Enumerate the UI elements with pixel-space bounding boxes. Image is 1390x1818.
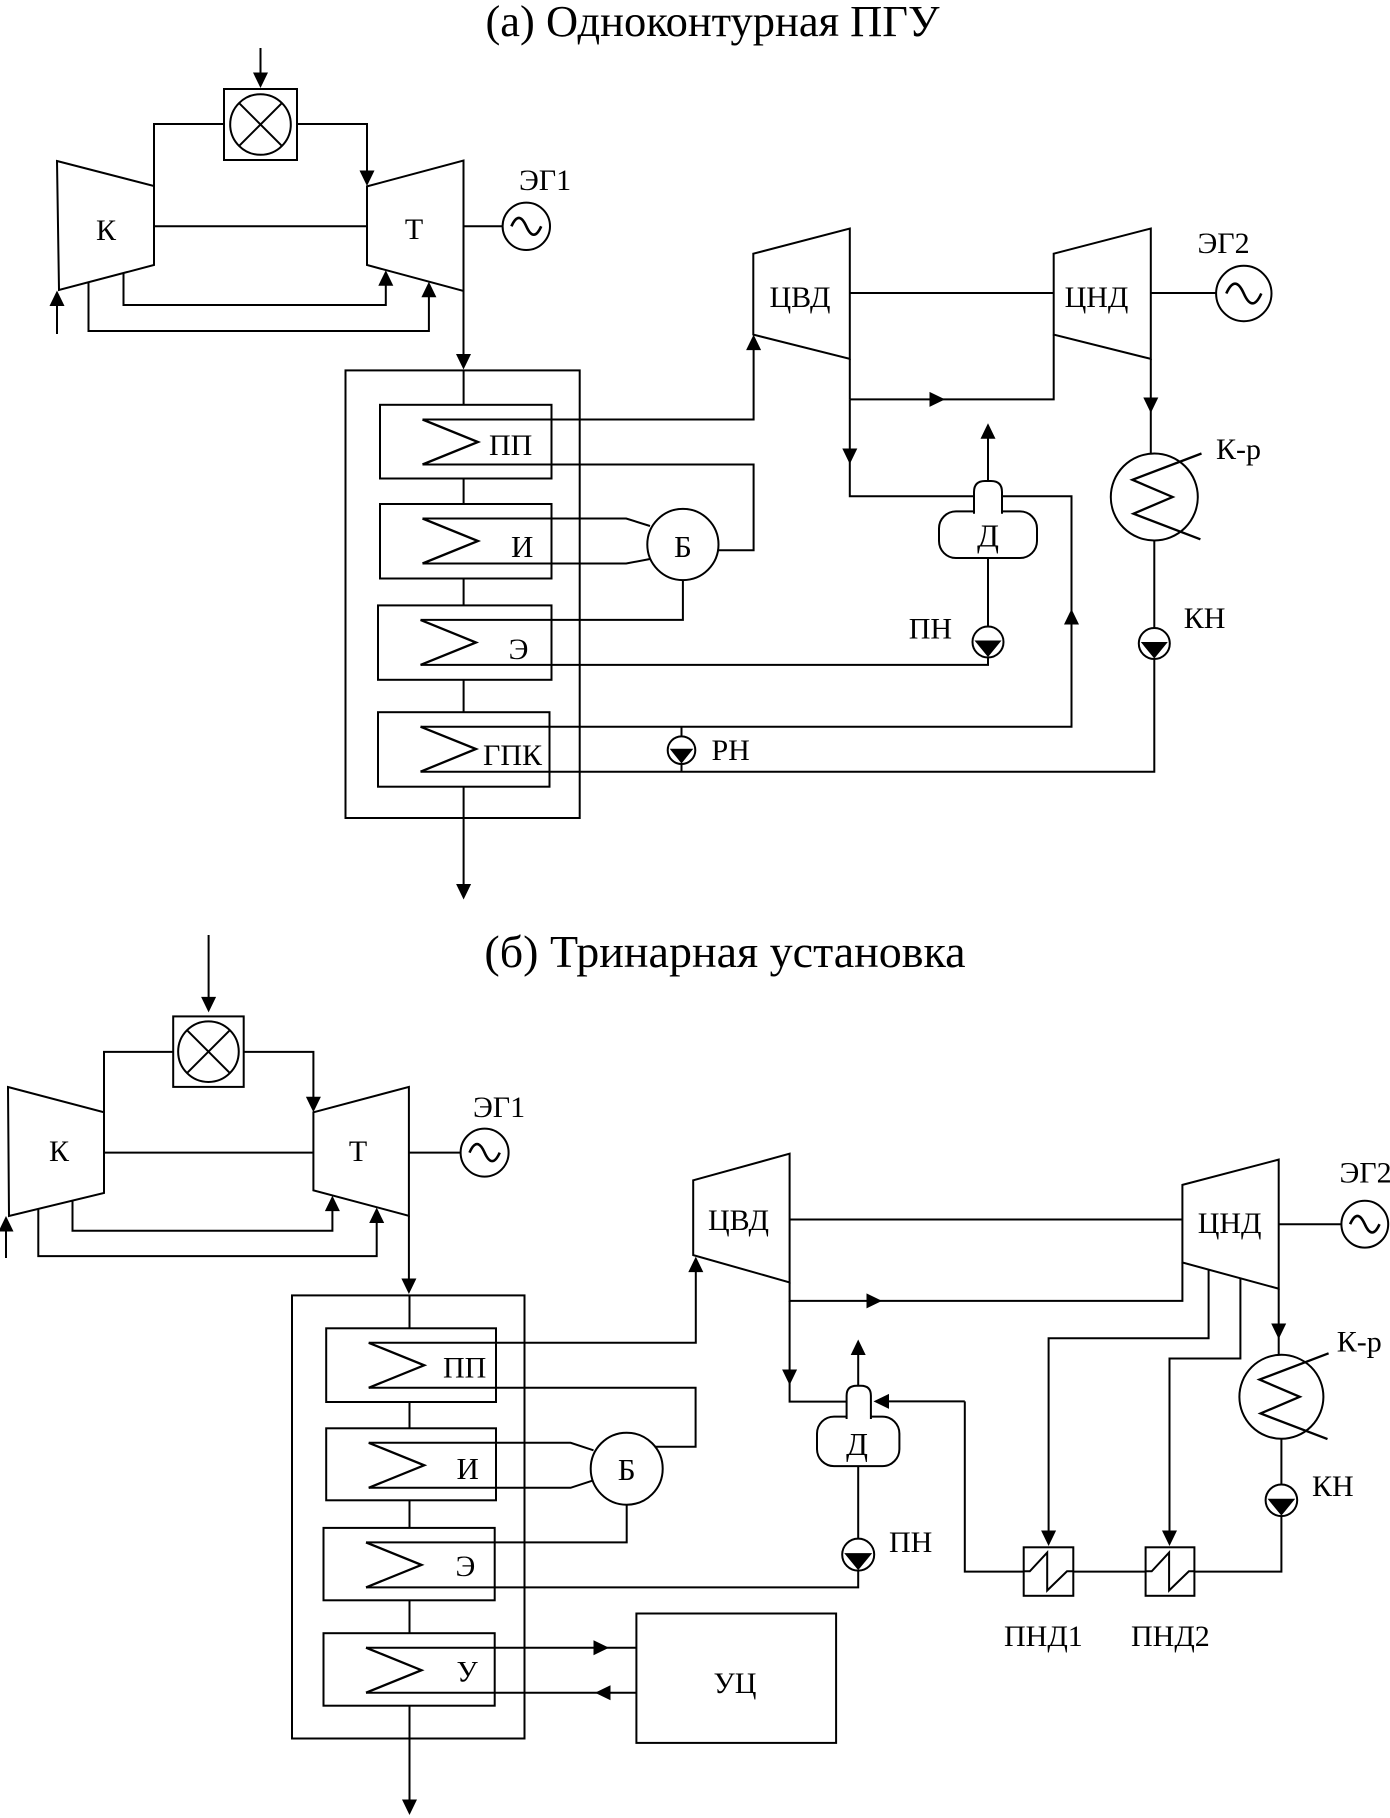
shaft TsND-EG2 (b) <box>1279 1223 1342 1225</box>
generator EG2 (b) <box>1341 1201 1388 1248</box>
fuel inlet arrow (b) <box>201 935 216 1012</box>
HPT TsVD (a) <box>753 229 850 359</box>
label EG2 (a) <box>1198 227 1250 260</box>
shaft T-EG1 (a) <box>464 225 503 227</box>
combustion chamber (b) <box>173 1016 244 1087</box>
condenser to KN (a) <box>1153 541 1155 629</box>
label UC (b) <box>714 1667 757 1700</box>
label PP (a) <box>489 429 532 462</box>
svg-text:И: И <box>457 1451 479 1486</box>
deaerator D neck (a) <box>974 481 1002 514</box>
evaporator I box (b) <box>326 1428 496 1500</box>
label D (b) <box>846 1426 868 1462</box>
wire compressor outlet to combustor (b) <box>104 1052 173 1113</box>
svg-text:КН: КН <box>1312 1470 1354 1503</box>
feed pump PN (a) <box>973 627 1004 658</box>
condensate riser to deaerator (b) <box>965 1401 1024 1571</box>
deaerator D body (a) <box>939 511 1037 558</box>
economizer E coil (b) <box>366 1542 422 1587</box>
svg-text:У: У <box>457 1656 479 1689</box>
label B (a) <box>674 529 692 564</box>
GPK box (a) <box>378 712 550 787</box>
deaerator vent (b) <box>851 1340 866 1386</box>
svg-text:К: К <box>96 214 117 247</box>
svg-text:ПП: ПП <box>489 429 532 462</box>
economizer outlet to drum (b) <box>366 1505 627 1542</box>
shaft TsVD-TsND (b) <box>790 1219 1183 1221</box>
LPT exhaust to condenser (a) <box>1143 359 1158 454</box>
U to UC supply line (b) <box>366 1640 636 1655</box>
economizer E coil (a) <box>421 620 477 665</box>
shaft T-EG1 (b) <box>409 1152 461 1154</box>
air inlet arrow (b) <box>0 1216 14 1258</box>
svg-text:Б: Б <box>618 1452 636 1487</box>
svg-text:ЭГ1: ЭГ1 <box>473 1091 525 1124</box>
LP heater PND2 (b) <box>1146 1547 1195 1596</box>
svg-text:ЭГ1: ЭГ1 <box>519 164 571 197</box>
extraction to PND2 (b) <box>1162 1278 1240 1546</box>
combustion chamber (a) <box>224 89 297 160</box>
label EG2 (b) <box>1340 1157 1390 1190</box>
label B (b) <box>618 1452 636 1487</box>
superheater PP box (b) <box>326 1328 496 1402</box>
svg-text:Т: Т <box>405 213 423 246</box>
UC to U return line (b) <box>366 1685 636 1700</box>
air bleed line 2 (a) <box>89 282 437 331</box>
svg-text:К: К <box>49 1135 70 1168</box>
superheater PP coil (b) <box>369 1343 425 1388</box>
label KN (a) <box>1184 602 1226 635</box>
label E (b) <box>456 1550 476 1583</box>
svg-text:Б: Б <box>674 529 692 564</box>
superheater PP coil (a) <box>423 420 479 465</box>
main steam line to HPT (b) <box>369 1257 704 1343</box>
feedwater line D-PN-E (a) <box>421 558 989 665</box>
condenser K-r (b) <box>1239 1353 1328 1439</box>
svg-text:Д: Д <box>977 518 999 554</box>
title (b) <box>484 926 965 977</box>
svg-text:ПНД2: ПНД2 <box>1131 1620 1210 1653</box>
label EG1 (b) <box>473 1091 525 1124</box>
LP heater PND1 (b) <box>1024 1547 1074 1596</box>
label TsND (a) <box>1065 281 1129 314</box>
compressor K (b) <box>8 1087 104 1216</box>
condensate from KN to GPK (a) <box>421 659 1155 772</box>
extraction to deaerator (a) <box>842 399 974 496</box>
label PN (a) <box>909 613 952 646</box>
drum steam line to PP (a) <box>423 465 754 551</box>
drum B (b) <box>591 1433 663 1505</box>
label GPK (a) <box>483 739 543 772</box>
svg-text:КН: КН <box>1184 602 1226 635</box>
feedwater line D-PN-E (b) <box>366 1466 858 1587</box>
generator EG1 (a) <box>503 203 550 250</box>
wire compressor outlet to combustor (a) <box>154 124 224 187</box>
label PND2 (b) <box>1131 1620 1210 1653</box>
generator EG2 (a) <box>1216 266 1271 321</box>
shaft TsND-EG2 (a) <box>1151 292 1217 294</box>
condensate inflow to deaerator (b) <box>874 1394 965 1409</box>
shaft K-T (a) <box>154 225 367 227</box>
svg-text:Д: Д <box>846 1426 868 1462</box>
deaerator vent (a) <box>981 423 996 481</box>
svg-text:ПНД1: ПНД1 <box>1004 1620 1083 1653</box>
label E (a) <box>509 633 529 666</box>
label KN (b) <box>1312 1470 1354 1503</box>
svg-text:ПН: ПН <box>889 1526 932 1559</box>
LPT TsND (a) <box>1054 229 1151 359</box>
label TsVD (b) <box>708 1204 769 1237</box>
deaerator D neck (b) <box>847 1386 871 1419</box>
riser I to drum (b) <box>369 1443 594 1451</box>
turbine exhaust duct (b) <box>401 1216 416 1294</box>
HRSG casing (b) <box>292 1295 525 1738</box>
svg-text:ГПК: ГПК <box>483 739 543 772</box>
turbine exhaust duct (a) <box>456 291 471 370</box>
fuel inlet arrow (a) <box>253 48 268 88</box>
svg-text:Э: Э <box>456 1550 476 1583</box>
flue gas path (b) <box>402 1295 417 1815</box>
label K (b) <box>49 1135 70 1168</box>
heat recovery U box (b) <box>324 1633 495 1706</box>
generator EG1 (b) <box>461 1129 509 1177</box>
downcomer drum to I (a) <box>423 559 651 564</box>
wire combustor to turbine inlet (a) <box>297 124 375 186</box>
label TsVD (a) <box>770 281 831 314</box>
feed pump PN (b) <box>842 1539 874 1571</box>
shaft K-T (b) <box>104 1152 313 1154</box>
condenser K-r (a) <box>1111 454 1202 541</box>
svg-text:ЦВД: ЦВД <box>770 281 831 314</box>
label TsND (b) <box>1198 1207 1262 1240</box>
main steam line to HPT (a) <box>423 335 762 420</box>
downcomer drum to I (b) <box>369 1480 594 1488</box>
utilization circuit UC box (b) <box>636 1614 836 1743</box>
label PN (b) <box>889 1526 932 1559</box>
label U (b) <box>457 1656 479 1689</box>
svg-text:(б) Тринарная установка: (б) Тринарная установка <box>484 926 965 977</box>
drum B (a) <box>647 509 718 580</box>
superheater PP box (a) <box>380 405 552 479</box>
label I (b) <box>457 1451 479 1486</box>
condensate pump KN (a) <box>1139 628 1170 659</box>
svg-text:И: И <box>511 529 533 564</box>
svg-text:Э: Э <box>509 633 529 666</box>
evaporator I coil (b) <box>369 1443 425 1488</box>
GPK coil (a) <box>421 727 477 772</box>
svg-text:ПН: ПН <box>909 613 952 646</box>
label T (b) <box>349 1135 367 1168</box>
condensate pump KN (b) <box>1266 1485 1298 1517</box>
svg-text:Т: Т <box>349 1135 367 1168</box>
air inlet arrow (a) <box>50 291 65 335</box>
svg-text:ЦНД: ЦНД <box>1065 281 1129 314</box>
crossover TsVD-TsND (b) <box>790 1263 1183 1309</box>
label D (a) <box>977 518 999 554</box>
shaft TsVD-TsND (a) <box>850 292 1054 294</box>
pipe PND1-PND2 (b) <box>1073 1571 1145 1573</box>
deaerator D body (b) <box>817 1417 899 1467</box>
LPT exhaust to condenser (b) <box>1271 1289 1286 1355</box>
svg-text:ЦНД: ЦНД <box>1198 1207 1262 1240</box>
economizer E box (b) <box>324 1528 495 1600</box>
heat recovery U coil (b) <box>366 1648 422 1693</box>
air bleed line 2 (b) <box>38 1208 384 1257</box>
condenser to KN (b) <box>1280 1439 1282 1485</box>
label PP (b) <box>443 1352 486 1385</box>
HRSG casing (a) <box>346 370 580 818</box>
turbine T (a) <box>367 161 464 292</box>
LPT TsND (b) <box>1182 1160 1278 1289</box>
air bleed line 1 (a) <box>124 270 394 305</box>
evaporator I coil (a) <box>423 519 479 564</box>
svg-text:ЭГ2: ЭГ2 <box>1340 1157 1390 1190</box>
svg-text:ЦВД: ЦВД <box>708 1204 769 1237</box>
svg-text:(а) Одноконтурная ПГУ: (а) Одноконтурная ПГУ <box>485 0 940 46</box>
economizer outlet to drum (a) <box>421 581 683 620</box>
condensate to deaerator (a) <box>421 496 1080 726</box>
recirc pump RN (a) <box>668 736 696 764</box>
extraction to deaerator (b) <box>782 1301 847 1402</box>
economizer E box (a) <box>378 605 552 679</box>
svg-text:ЭГ2: ЭГ2 <box>1198 227 1250 260</box>
label RN (a) <box>712 734 750 767</box>
riser I to drum (a) <box>423 519 651 527</box>
recirculation line (a) <box>681 727 683 772</box>
air bleed line 1 (b) <box>73 1196 340 1231</box>
svg-text:К-р: К-р <box>1216 433 1261 466</box>
svg-text:РН: РН <box>712 734 750 767</box>
label I (a) <box>511 529 533 564</box>
evaporator I box (a) <box>380 504 552 579</box>
drum steam line to PP (b) <box>369 1388 696 1447</box>
label K-r (a) <box>1216 433 1261 466</box>
svg-text:УЦ: УЦ <box>714 1667 757 1700</box>
wire combustor to turbine inlet (b) <box>244 1052 321 1112</box>
label T (a) <box>405 213 423 246</box>
crossover TsVD-TsND (a) <box>850 335 1054 407</box>
label K-r (b) <box>1337 1326 1382 1359</box>
svg-text:К-р: К-р <box>1337 1326 1382 1359</box>
label EG1 (a) <box>519 164 571 197</box>
HPT TsVD (b) <box>693 1154 789 1283</box>
extraction to PND1 (b) <box>1041 1269 1209 1546</box>
label K (a) <box>96 214 117 247</box>
label PND1 (b) <box>1004 1620 1083 1653</box>
title (a) <box>485 0 940 46</box>
turbine T (b) <box>313 1087 409 1216</box>
svg-text:ПП: ПП <box>443 1352 486 1385</box>
condensate KN to PND2 (b) <box>1194 1517 1281 1572</box>
compressor K (a) <box>57 161 154 290</box>
flue gas path (a) <box>456 370 471 899</box>
